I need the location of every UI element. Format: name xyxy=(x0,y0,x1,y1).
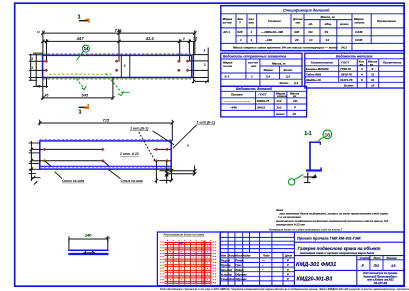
left dim ladder vertical x=30.7 xyxy=(30,54,32,81)
svg-text:14: 14 xyxy=(326,38,330,42)
svg-text:7798-70: 7798-70 xyxy=(340,67,351,71)
svg-text:11371-78: 11371-78 xyxy=(340,78,353,82)
detail side verticals xyxy=(68,239,70,250)
inner verticals with label xyxy=(120,55,122,77)
elevation end bar right xyxy=(171,120,173,141)
svg-text:Лист: Лист xyxy=(373,256,382,260)
rung y=77.5 xyxy=(29,77,43,79)
detail blue plate bottom xyxy=(68,253,108,255)
svg-text:АФ-2ХУ-М1: АФ-2ХУ-М1 xyxy=(373,282,388,285)
blue highlight dash in red grid xyxy=(179,242,184,243)
svg-text:Попов: Попов xyxy=(236,259,245,263)
section marker bottom: orange view arrow xyxy=(84,104,89,108)
balloon leader xyxy=(318,137,323,141)
elevation gauge line row1 left xyxy=(31,148,103,150)
svg-text:111: 111 xyxy=(293,99,298,103)
weld flag 1 xyxy=(118,92,124,96)
vertical x=46.5 short below xyxy=(46,78,48,88)
svg-text:б1: б1 xyxy=(325,30,329,34)
svg-text:№док: №док xyxy=(243,254,251,258)
elevation gauge line row2 right xyxy=(154,160,172,162)
svg-text:Р: Р xyxy=(287,263,289,267)
stamp main vertical divider xyxy=(293,232,295,286)
svg-text:—1800х10–448: —1800х10–448 xyxy=(260,30,283,34)
svg-text:~~: ~~ xyxy=(262,259,266,262)
T4 lines xyxy=(221,90,307,92)
channel bottom flange xyxy=(306,169,322,171)
weld slashes at bolts xyxy=(45,161,109,166)
svg-text:Масса сварных швов принята 1%: Масса сварных швов принята 1% от массы к… xyxy=(233,46,338,50)
svg-text:всего: всего xyxy=(276,112,285,116)
svg-text:–44К: –44К xyxy=(230,106,238,110)
svg-text:кг: кг xyxy=(370,62,374,66)
svg-text:140: 140 xyxy=(85,233,91,237)
svg-text:4: 4 xyxy=(360,67,363,71)
svg-text:С245: С245 xyxy=(355,38,363,42)
svg-text:отверстия д 23 мм: отверстия д 23 мм xyxy=(276,222,306,226)
leader from first label xyxy=(153,131,175,145)
svg-text:1: 1 xyxy=(251,38,253,42)
detail top dim line xyxy=(69,238,108,240)
svg-text:ПО: ПО xyxy=(374,264,380,268)
svg-text:41: 41 xyxy=(370,78,375,82)
svg-text:Листов: Листов xyxy=(386,256,398,260)
svg-text:Всего: Всего xyxy=(284,68,293,72)
olive dashed above elevation top xyxy=(40,139,171,141)
svg-text:Обухова: Обухова xyxy=(236,277,248,281)
balloon 16 xyxy=(323,130,332,139)
svg-text:Галерея подвесного крана на об: Галерея подвесного крана на объект xyxy=(298,246,381,251)
svg-text:Стык св.шва: Стык св.шва xyxy=(121,179,143,183)
red thick column line xyxy=(204,241,206,285)
right bottom short dim y=81.4 xyxy=(195,80,209,82)
dimension line y=41.3 xyxy=(43,40,195,42)
red grid verticals xyxy=(168,242,211,283)
svg-text:Дата: Дата xyxy=(284,254,293,258)
dashed leader to bolts xyxy=(139,132,155,161)
elevation inner flange line xyxy=(40,165,171,167)
svg-text:Р: Р xyxy=(287,272,289,276)
svg-text:15: 15 xyxy=(371,84,375,88)
svg-text:эл-та: эл-та xyxy=(223,64,232,68)
red box border xyxy=(157,232,220,286)
svg-text:Всего:: Всего: xyxy=(344,84,354,88)
balloon 2 leader xyxy=(294,174,303,179)
olive dashed line above top flange xyxy=(43,53,191,55)
weld leader 1 green dashed xyxy=(106,74,121,92)
stamp right rows xyxy=(294,241,404,243)
vertical x=112.9 down xyxy=(112,78,114,100)
svg-text:24: 24 xyxy=(292,112,297,116)
bolt diamonds plan xyxy=(44,60,189,72)
svg-text:Марки: Марки xyxy=(264,68,274,72)
svg-text:Примечание: Примечание xyxy=(383,60,402,64)
elevation gauge line row1 right xyxy=(154,148,172,150)
svg-text:стали: стали xyxy=(355,20,365,24)
T1 vertical lines xyxy=(235,14,237,44)
svg-text:Р: Р xyxy=(287,277,289,281)
olive dashed interior line xyxy=(49,73,114,75)
red dotted columns xyxy=(160,240,216,286)
bolt cross vertical xyxy=(307,172,309,183)
stadia column divider xyxy=(356,256,358,286)
svg-text:Р: Р xyxy=(287,259,289,263)
svg-text:а: а xyxy=(187,143,189,147)
svg-text:2,4: 2,4 xyxy=(265,74,271,78)
dimension line total (715) y=33 xyxy=(43,32,195,34)
short dim line left y=53.2 xyxy=(33,52,44,54)
svg-text:Б-1: Б-1 xyxy=(225,74,230,78)
below-left step dim y=86.4 xyxy=(33,85,48,87)
svg-text:мм: мм xyxy=(296,20,301,24)
svg-text:Обухова: Обухова xyxy=(236,272,248,276)
tick marks dim y=41.3 xyxy=(41,40,196,43)
svg-text:Проект причала ГМК КМ-301-ГМК: Проект причала ГМК КМ-301-ГМК xyxy=(297,236,361,240)
svg-text:3: 3 xyxy=(31,66,33,70)
right ext vertical x=193.6 xyxy=(193,43,195,83)
right side rungs xyxy=(189,55,208,78)
svg-text:Ведомость метизов: Ведомость метизов xyxy=(336,54,372,58)
detail weld mark xyxy=(83,252,95,254)
svg-text:3: 3 xyxy=(203,49,205,53)
elevation beam outline xyxy=(40,141,171,169)
elevation bolts row1 xyxy=(43,148,169,163)
svg-text:3: 3 xyxy=(183,37,185,41)
svg-text:1З: 1З xyxy=(391,264,396,268)
svg-text:14: 14 xyxy=(37,30,41,34)
rung y=70.4 xyxy=(29,69,47,71)
svg-text:1 шт.(Б-1): 1 шт.(Б-1) xyxy=(197,121,216,125)
svg-text:1: 1 xyxy=(251,30,253,34)
extension line x=119 xyxy=(118,30,120,61)
svg-text:448: 448 xyxy=(293,30,299,34)
extension line x=194.8 xyxy=(194,30,196,55)
svg-text:Провер: Провер xyxy=(221,263,231,267)
detail blue plate top xyxy=(68,249,108,251)
svg-text:Ведомость отправочных элементо: Ведомость отправочных элементов xyxy=(223,55,286,59)
svg-text:Сечение: Сечение xyxy=(268,19,281,23)
svg-text:ГОСТ: ГОСТ xyxy=(341,60,350,64)
svg-text:Утвердил: Утвердил xyxy=(221,277,235,281)
svg-text:стали: стали xyxy=(277,94,287,98)
svg-text:Масса, т: Масса, т xyxy=(272,61,286,65)
svg-text:Грач: Грач xyxy=(236,263,242,267)
left dim vertical elevation xyxy=(30,141,32,181)
channel top lip xyxy=(319,142,321,145)
T1 outer border xyxy=(221,6,404,51)
svg-text:кг: кг xyxy=(293,94,297,98)
stamp outer border xyxy=(220,232,404,286)
small bolt arrow below beam xyxy=(165,173,169,176)
svg-text:Р: Р xyxy=(287,268,289,272)
svg-text:34011: 34011 xyxy=(257,106,265,110)
svg-text:шт: шт xyxy=(251,64,257,68)
weld leader 2 green dashed xyxy=(77,79,85,89)
balloon 14 plan xyxy=(82,45,89,52)
left rungs elevation xyxy=(29,142,40,144)
svg-text:Стык св.шва: Стык св.шва xyxy=(62,179,84,183)
balloon 2 xyxy=(288,179,294,185)
stamp left rows xyxy=(220,236,294,238)
weld flag 2 xyxy=(82,86,87,89)
red grid horizontals xyxy=(165,242,212,283)
svg-text:Код-Челябинск / Балка Б-1 по с: Код-Челябинск / Балка Б-1 по сер.1-420-Ч… xyxy=(160,287,409,291)
svg-text:4: 4 xyxy=(360,72,363,76)
svg-text:1-1: 1-1 xyxy=(304,131,311,137)
elevation gauge line row2 left xyxy=(31,160,103,162)
svg-text:Всего: Всего xyxy=(280,81,289,85)
svg-text:1: 1 xyxy=(79,110,82,116)
vertical x=42.8 down to 545 line xyxy=(42,78,44,100)
svg-text:Рябов: Рябов xyxy=(236,268,244,272)
svg-text:Н.контр: Н.контр xyxy=(221,272,232,276)
svg-text:Гайки М20: Гайки М20 xyxy=(306,72,322,76)
svg-text:Расположение балок на плане: Расположение балок на плане xyxy=(164,232,205,236)
svg-text:Наименование: Наименование xyxy=(311,60,333,64)
right dim vertical x=208.2 xyxy=(207,48,209,83)
svg-text:КМД-301 ФМ31: КМД-301 ФМ31 xyxy=(296,262,336,268)
svg-text:эл-та: эл-та xyxy=(223,20,232,24)
svg-text:Шайбы 20: Шайбы 20 xyxy=(306,78,321,82)
ticks 545 xyxy=(41,96,115,99)
svg-text:45: 45 xyxy=(36,85,41,89)
svg-text:шт: шт xyxy=(249,20,255,24)
svg-text:общ.: общ. xyxy=(325,22,333,26)
tick marks dim y=33 xyxy=(41,31,196,34)
bolt lower tick xyxy=(304,182,311,184)
svg-text:Спецификация деталей: Спецификация деталей xyxy=(283,8,330,12)
svg-text:С245: С245 xyxy=(355,30,363,34)
extension line x=189.4 xyxy=(188,39,190,61)
extension line x=46.5 xyxy=(46,39,48,62)
svg-text:во: во xyxy=(360,62,364,66)
T2 outer border xyxy=(221,53,302,86)
beam outline plan xyxy=(43,55,192,77)
svg-text:1 шт.(Б-1): 1 шт.(Б-1) xyxy=(130,127,149,131)
svg-text:1: 1 xyxy=(240,38,242,42)
svg-text:1: 1 xyxy=(78,15,81,21)
T4 outer border xyxy=(221,86,307,117)
svg-text:1б: 1б xyxy=(325,131,331,137)
bolt cross horizontal xyxy=(304,176,318,178)
svg-text:715: 715 xyxy=(103,118,110,123)
leader from second label xyxy=(173,125,197,148)
svg-text:3: 3 xyxy=(31,57,33,61)
svg-text:Подп: Подп xyxy=(263,254,270,258)
olive dashed line below bottom flange xyxy=(43,78,191,80)
svg-text:Нумерация балок по схеме монта: Нумерация балок по схеме монтажных осей … xyxy=(269,227,343,231)
svg-text:Болты М20х60: Болты М20х60 xyxy=(306,67,329,71)
bolt arrow solid xyxy=(311,174,316,178)
olive dashed in bottom flange xyxy=(40,167,171,169)
extension line x=42.9 xyxy=(42,30,44,56)
section marker top: black line xyxy=(79,20,89,22)
svg-text:Нач.отд: Нач.отд xyxy=(221,268,232,272)
svg-text:КМД20-301-В3: КМД20-301-В3 xyxy=(297,276,333,282)
svg-text:Стадия: Стадия xyxy=(360,256,371,260)
svg-text:41.4: 41.4 xyxy=(145,36,155,41)
svg-text:Прокат: Прокат xyxy=(231,93,243,97)
svg-text:111: 111 xyxy=(308,30,313,34)
svg-text:Примечание: Примечание xyxy=(377,19,396,23)
svg-text:5915-70: 5915-70 xyxy=(341,72,352,76)
svg-text:Р: Р xyxy=(294,106,296,110)
svg-text:Ведомость деталей: Ведомость деталей xyxy=(236,87,273,91)
balloon leader xyxy=(77,51,84,60)
svg-text:715: 715 xyxy=(115,28,123,33)
svg-text:монтажная схема и чертежи отпр: монтажная схема и чертежи отправочных ма… xyxy=(300,251,375,255)
right of elevation dim horizontals xyxy=(160,170,196,172)
svg-text:14: 14 xyxy=(309,38,313,42)
section marker top: orange view arrow xyxy=(85,19,89,23)
svg-text:≠28: ≠28 xyxy=(237,30,242,34)
svg-text:545: 545 xyxy=(81,93,88,98)
svg-text:?: ? xyxy=(239,20,241,24)
svg-text:14: 14 xyxy=(84,46,89,51)
elevation dim ticks xyxy=(38,121,174,124)
svg-text:24,1: 24,1 xyxy=(340,46,347,50)
svg-text:АР-1: АР-1 xyxy=(222,30,230,34)
channel bottom lip xyxy=(320,167,322,170)
svg-text:3: 3 xyxy=(204,63,206,67)
svg-text:всего: всего xyxy=(340,22,349,26)
svg-text:Масса, кг: Масса, кг xyxy=(321,15,336,19)
svg-text:2 отв. d 23: 2 отв. d 23 xyxy=(119,152,139,156)
svg-text:Изм: Изм xyxy=(221,254,226,258)
elevation end bar left xyxy=(39,120,41,126)
svg-text:2х2: 2х2 xyxy=(276,106,282,110)
T2 lines xyxy=(221,58,302,60)
below-left step dim y=80.3 xyxy=(29,79,37,81)
svg-text:11: 11 xyxy=(371,72,374,76)
svg-text:Разраб: Разраб xyxy=(221,259,231,263)
svg-text:19903-74: 19903-74 xyxy=(257,99,270,103)
stamp left columns xyxy=(227,232,229,286)
svg-text:ГОСТ: ГОСТ xyxy=(259,93,268,97)
section marker bottom: black line xyxy=(79,106,89,108)
elevation dim line 715 xyxy=(40,122,173,124)
svg-text:447: 447 xyxy=(76,36,85,41)
svg-text:28: 28 xyxy=(294,38,299,42)
left dim ladder vertical x=36.2 xyxy=(35,54,37,87)
T3 lines xyxy=(305,58,404,60)
svg-text:3: 3 xyxy=(124,64,126,68)
T1 horizontal lines xyxy=(221,13,404,15)
svg-text:2,4: 2,4 xyxy=(285,74,291,78)
svg-text:— — — — — — —: — — — — — — — xyxy=(223,99,251,103)
channel web xyxy=(309,142,311,171)
T3 outer border xyxy=(305,53,404,88)
channel top flange xyxy=(309,141,321,143)
rung y=61.2 xyxy=(29,60,47,62)
right of elevation dim verticals xyxy=(155,161,157,184)
svg-text:–44К: –44К xyxy=(265,38,273,42)
rung y=54.8 xyxy=(29,54,43,56)
dim line 545 xyxy=(43,97,113,99)
svg-text:ед.: ед. xyxy=(309,22,314,26)
svg-text:2,4: 2,4 xyxy=(293,81,299,85)
svg-text:2х2: 2х2 xyxy=(276,99,282,103)
extension line x=179.7 xyxy=(179,39,181,61)
